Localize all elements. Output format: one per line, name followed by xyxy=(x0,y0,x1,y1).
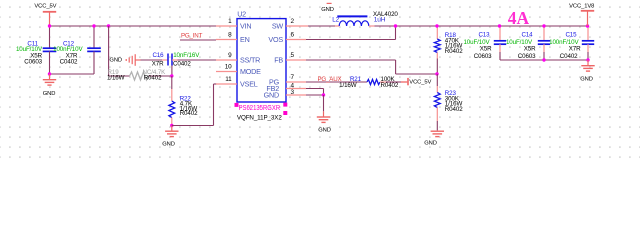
ground output caps xyxy=(580,60,594,83)
ground below IC xyxy=(317,111,331,133)
junction FB node xyxy=(435,72,438,75)
svg-text:X5R: X5R xyxy=(480,45,492,52)
svg-text:C13: C13 xyxy=(478,31,490,38)
wire input cap ground rail xyxy=(50,73,95,75)
wire FB xyxy=(306,60,437,74)
power label GND above L2 xyxy=(321,3,334,13)
svg-text:SS/TR: SS/TR xyxy=(240,56,260,65)
svg-text:C15: C15 xyxy=(565,31,577,38)
svg-text:VSEL: VSEL xyxy=(240,80,258,89)
svg-text:11: 11 xyxy=(225,76,232,83)
svg-text:1uH: 1uH xyxy=(374,17,386,24)
svg-text:EN: EN xyxy=(240,35,250,44)
svg-text:VQFN_11P_3X2: VQFN_11P_3X2 xyxy=(237,115,282,122)
pin 11 VSEL xyxy=(216,76,258,89)
junction rail C13 xyxy=(498,24,501,27)
svg-text:R0402: R0402 xyxy=(381,82,399,89)
svg-text:GND: GND xyxy=(318,128,331,134)
wire VSEL to ground net xyxy=(172,84,217,126)
junction rail C14 xyxy=(542,24,545,27)
pin 4 FB2 xyxy=(266,83,306,94)
ground below C11 xyxy=(43,74,56,97)
pin 10 MODE xyxy=(216,64,261,77)
pin 6 VOS xyxy=(268,32,306,45)
ground below R23 xyxy=(424,131,444,147)
svg-text:U2: U2 xyxy=(237,9,246,18)
svg-text:VCC_5V: VCC_5V xyxy=(409,80,431,86)
capacitor C12 xyxy=(53,26,101,74)
wire VIN top rail xyxy=(50,25,218,27)
resistor R22 xyxy=(169,76,198,126)
svg-text:L2: L2 xyxy=(332,17,339,24)
resistor R18 xyxy=(434,26,463,74)
pin 9 SS/TR xyxy=(216,52,260,64)
pin 7 PG xyxy=(269,74,306,87)
svg-text:GND: GND xyxy=(264,91,279,100)
svg-text:C0603: C0603 xyxy=(474,53,492,60)
junction top rail at VCC xyxy=(48,24,51,27)
wire C16 to SS/TR xyxy=(172,59,178,61)
pin 5 FB xyxy=(274,52,306,64)
capacitor C11 xyxy=(16,26,56,74)
wire output rail xyxy=(396,25,589,27)
svg-text:VCC_5V: VCC_5V xyxy=(34,3,56,9)
ground left of C16 xyxy=(109,54,140,66)
pin 2 SW xyxy=(272,18,308,31)
junction R22 bottom xyxy=(170,124,173,127)
svg-text:R0402: R0402 xyxy=(180,110,198,117)
power port VCC_5V top-left xyxy=(34,3,56,26)
svg-text:VCC_1V8: VCC_1V8 xyxy=(569,3,594,9)
svg-text:GND: GND xyxy=(43,91,56,97)
ground below R22 xyxy=(162,126,178,148)
svg-text:FB: FB xyxy=(274,56,283,65)
svg-text:VOS: VOS xyxy=(268,35,283,44)
power port VCC_5V mid xyxy=(401,78,431,86)
wire gnd to C16 xyxy=(141,59,163,61)
pin 3 GND xyxy=(264,89,306,100)
junction cap ground rail xyxy=(48,72,51,75)
svg-text:C0402: C0402 xyxy=(60,59,78,66)
junction gnd rail C15 xyxy=(586,58,589,61)
wire GND pin xyxy=(306,94,324,96)
part number PS62135RGXR (selected) xyxy=(235,103,288,115)
svg-text:R0402: R0402 xyxy=(445,48,463,55)
svg-text:GND: GND xyxy=(109,58,122,64)
junction EN node xyxy=(170,74,173,77)
wire L2 to output rail xyxy=(375,25,396,27)
capacitor C13 xyxy=(463,26,506,60)
power port VCC_1V8 xyxy=(569,3,594,26)
wire PG xyxy=(306,81,367,83)
svg-text:R0402: R0402 xyxy=(445,106,463,113)
junction gnd rail C14 xyxy=(542,58,545,61)
svg-text:GND: GND xyxy=(580,77,593,83)
wire C16 right plate to R22 node xyxy=(171,66,173,77)
svg-text:R0402: R0402 xyxy=(144,75,162,82)
svg-text:PS62135RGXR: PS62135RGXR xyxy=(239,105,281,112)
wire VOS xyxy=(306,26,396,40)
capacitor C16 xyxy=(152,52,200,67)
junction GND net xyxy=(322,93,325,96)
wire R19 right to EN node xyxy=(149,75,172,77)
svg-text:GND: GND xyxy=(321,7,334,13)
resistor R19 (NC) xyxy=(107,69,166,81)
svg-text:C0603: C0603 xyxy=(24,59,42,66)
capacitor C15 xyxy=(549,26,594,60)
pin 1 VIN xyxy=(216,18,251,31)
resistor R23 xyxy=(434,74,463,130)
svg-text:PG_INT: PG_INT xyxy=(181,32,203,39)
svg-text:PG_AUX: PG_AUX xyxy=(318,76,342,83)
svg-text:X7R: X7R xyxy=(152,61,164,68)
wire SW to L2 xyxy=(308,25,335,27)
svg-text:GND: GND xyxy=(162,141,175,147)
wire FB2 xyxy=(306,89,324,96)
IC U2 TPS62135 xyxy=(237,9,286,102)
svg-text:C0402: C0402 xyxy=(173,61,191,68)
svg-text:10nF/16V: 10nF/16V xyxy=(173,52,200,59)
svg-text:C0603: C0603 xyxy=(518,53,536,60)
svg-text:C0402: C0402 xyxy=(560,53,578,60)
capacitor C14 xyxy=(506,26,550,60)
wire EN to pin8 xyxy=(180,39,216,41)
pin 8 EN xyxy=(216,32,250,45)
resistor R21 xyxy=(339,76,401,89)
svg-text:MODE: MODE xyxy=(240,67,261,76)
wire output cap ground rail xyxy=(500,59,588,61)
svg-text:1/16W: 1/16W xyxy=(339,82,357,89)
junction R18 top xyxy=(435,24,438,27)
wire R19 left xyxy=(109,75,130,77)
svg-text:C16: C16 xyxy=(152,52,164,59)
svg-text:X7R: X7R xyxy=(569,45,581,52)
junction rail C15/VCC_1V8 xyxy=(586,24,589,27)
junction top rail at C12 xyxy=(92,24,95,27)
wire VIN branch down to R19 xyxy=(108,26,110,76)
svg-text:VIN: VIN xyxy=(240,22,251,31)
svg-text:1/16W: 1/16W xyxy=(107,75,125,82)
inductor L2 xyxy=(332,11,398,26)
svg-text:10: 10 xyxy=(225,64,232,71)
svg-text:4A: 4A xyxy=(508,8,530,28)
svg-text:GND: GND xyxy=(424,141,437,147)
svg-text:SW: SW xyxy=(272,22,284,31)
junction top rail at R19 branch xyxy=(107,24,110,27)
svg-text:X5R: X5R xyxy=(524,45,536,52)
junction VOS/rail xyxy=(394,24,397,27)
svg-text:C14: C14 xyxy=(521,31,533,38)
wire down to ground xyxy=(323,95,325,111)
